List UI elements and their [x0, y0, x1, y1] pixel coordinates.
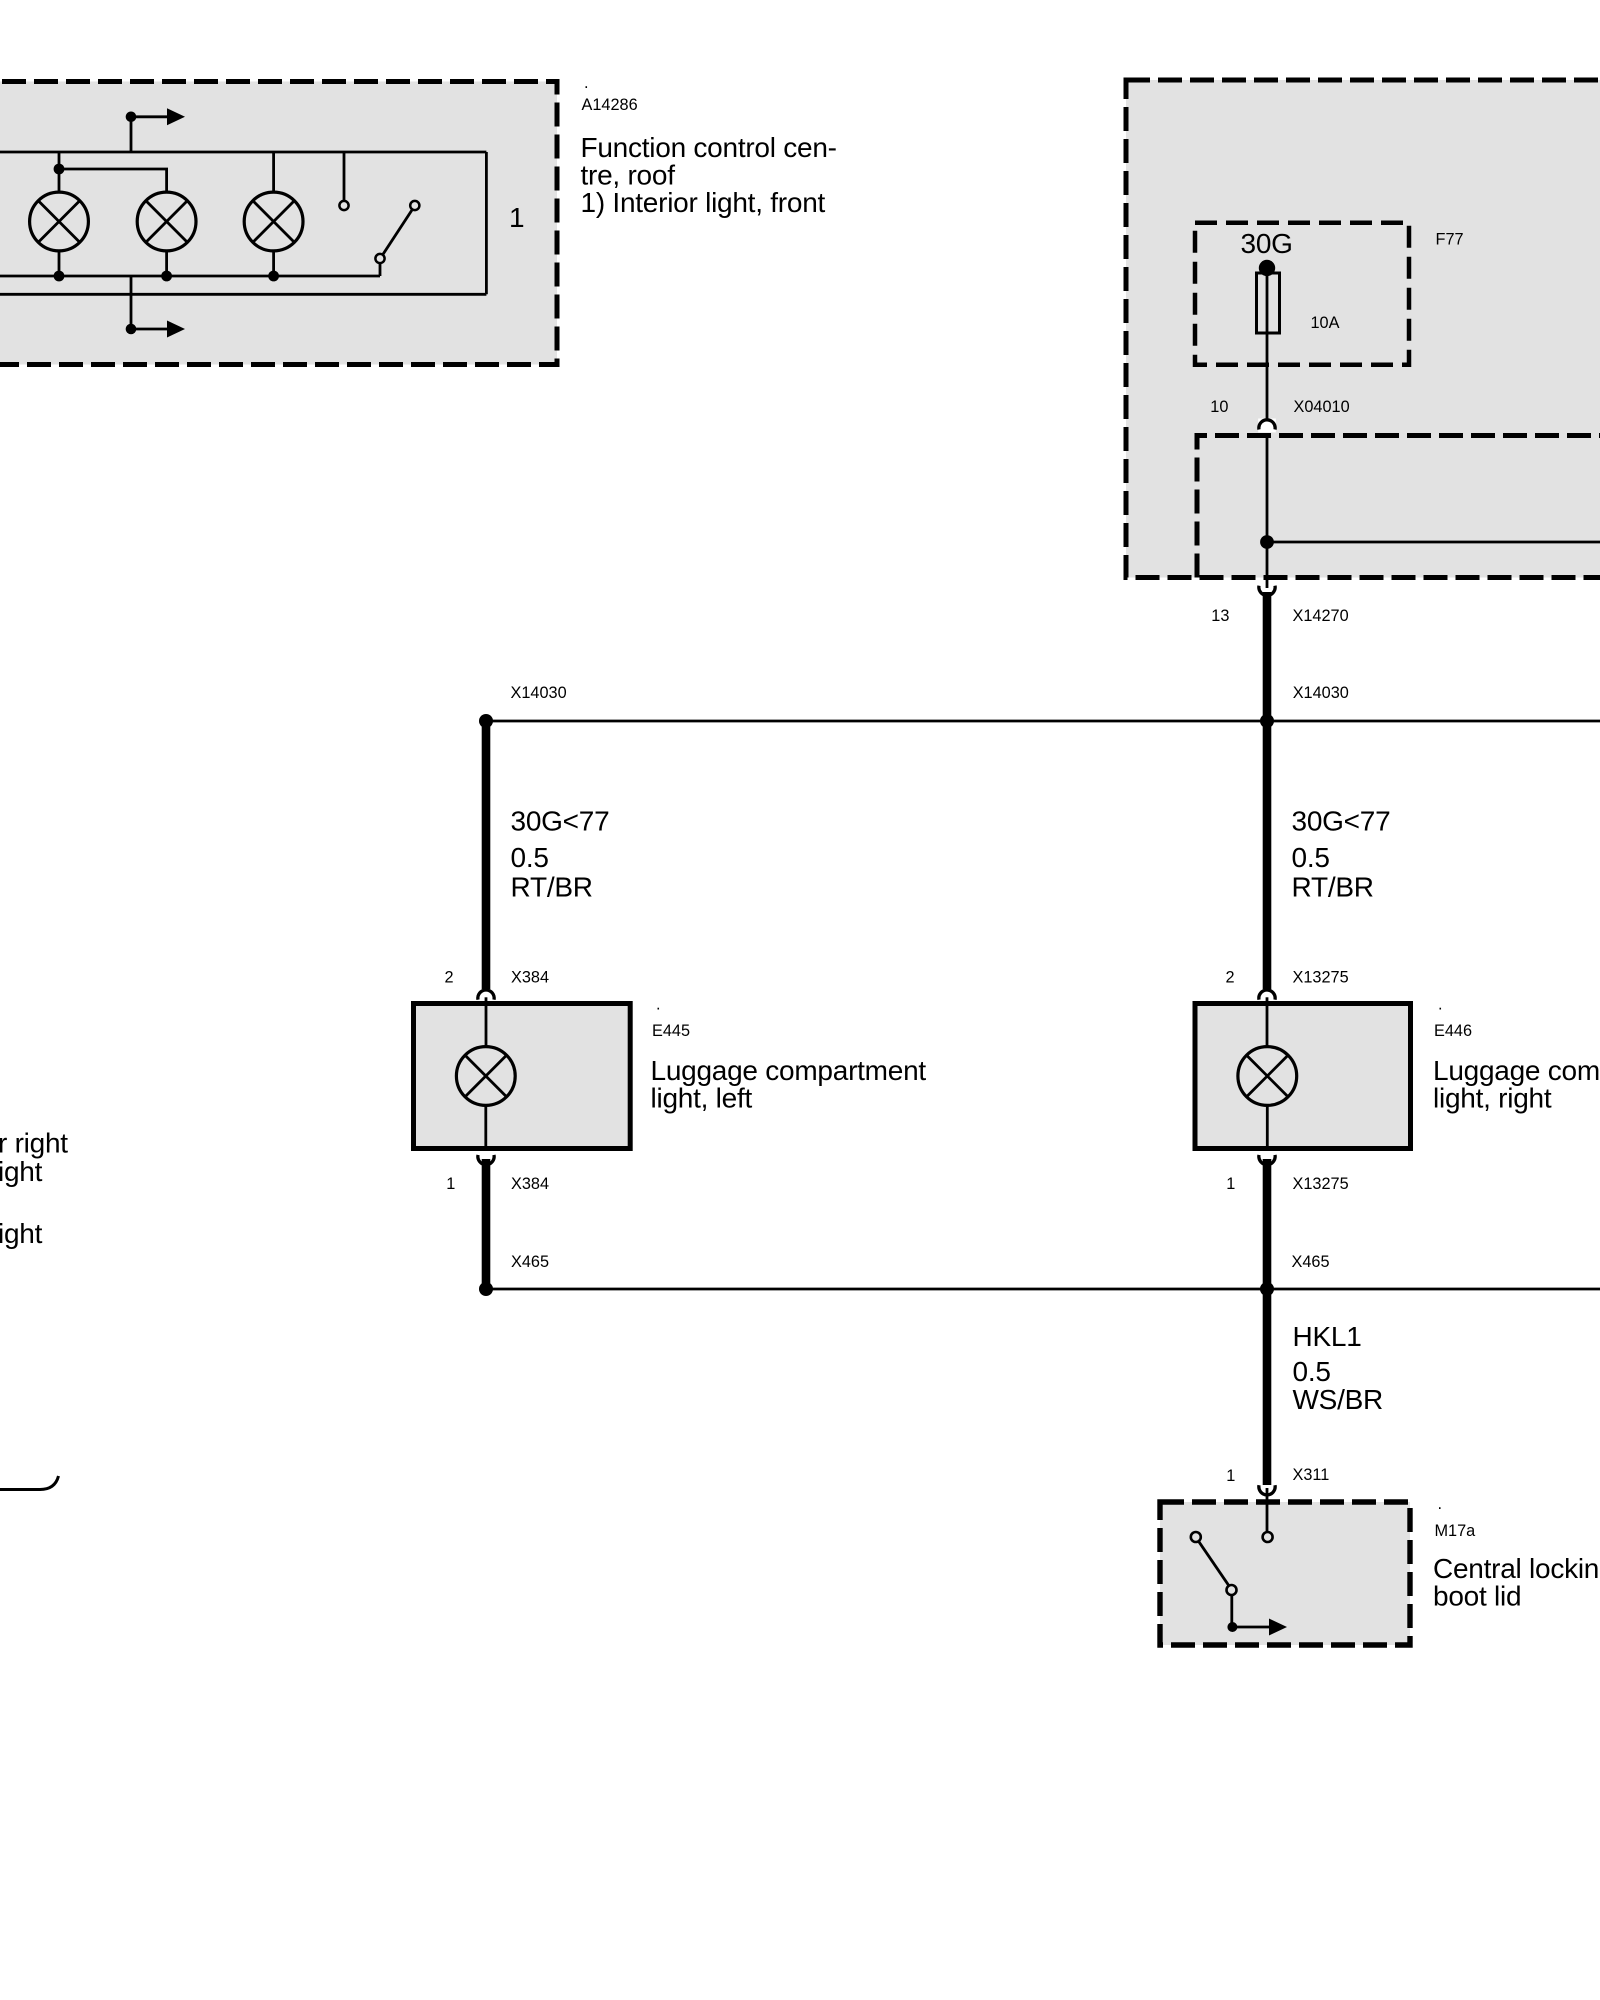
fuse F77 10A [1259, 260, 1275, 276]
output arrow top [131, 117, 170, 152]
lamp E445 [456, 1047, 515, 1106]
svg-text:X384: X384 [511, 969, 549, 987]
svg-text:1: 1 [509, 202, 524, 233]
svg-text:X465: X465 [1292, 1253, 1330, 1271]
node: lamp1 bottom junction [54, 271, 65, 282]
svg-text:Luggage compartment: Luggage compartment [1433, 1055, 1600, 1086]
svg-text:tre, roof: tre, roof [581, 160, 676, 191]
svg-text:A14286: A14286 [582, 96, 638, 114]
fuse box F77 dashed outline [1195, 223, 1409, 365]
output arrow bottom [131, 276, 170, 329]
svg-text:r right: r right [0, 1128, 68, 1159]
svg-text:X384: X384 [511, 1175, 549, 1193]
svg-text:F77: F77 [1436, 231, 1464, 249]
node X465 left [479, 1282, 493, 1296]
switch contact M17a pin [1266, 1502, 1269, 1532]
svg-text:ight: ight [0, 1218, 43, 1249]
svg-text:0.5: 0.5 [1293, 1356, 1331, 1387]
svg-text:1: 1 [446, 1175, 455, 1193]
node: lamp1 top junction [54, 164, 65, 175]
svg-text:.: . [584, 74, 589, 92]
svg-text:Function control cen-: Function control cen- [581, 132, 837, 163]
switch M17a [1191, 1532, 1201, 1542]
svg-text:RT/BR: RT/BR [1292, 872, 1374, 903]
control unit A14286 box (Function control centre, roof) [0, 82, 557, 365]
junction box inner dashed outline [1197, 436, 1600, 578]
svg-text:boot lid: boot lid [1433, 1581, 1521, 1612]
switch (interior light switch) [343, 152, 346, 201]
connector X13275 pin 1 [1259, 1155, 1275, 1165]
wire HKL1 (thick) [1263, 1289, 1272, 1485]
svg-text:0.5: 0.5 [511, 842, 549, 873]
node: distribution junction [1260, 535, 1274, 549]
svg-text:RT/BR: RT/BR [511, 872, 593, 903]
wire: thick supply X14270 to X14030 [1263, 592, 1272, 721]
wire: internal lamp bus [0, 275, 380, 278]
svg-text:30G<77: 30G<77 [511, 806, 610, 837]
svg-text:30G: 30G [1241, 228, 1293, 259]
wire: internal return line bottom [0, 293, 486, 296]
svg-text:2: 2 [1226, 969, 1235, 987]
svg-text:light, right: light, right [1433, 1083, 1552, 1114]
svg-text:.: . [1438, 1495, 1443, 1513]
node X14030 left [479, 714, 493, 728]
svg-text:10: 10 [1210, 398, 1228, 416]
lamp 1 (interior light) [58, 152, 61, 192]
wire (clipped curve, bottom left) [0, 1476, 59, 1490]
svg-text:E446: E446 [1434, 1022, 1472, 1040]
svg-text:X14270: X14270 [1293, 607, 1349, 625]
svg-text:X14030: X14030 [1293, 684, 1349, 702]
lamp 3 (interior light) [272, 152, 275, 192]
svg-text:E445: E445 [652, 1022, 690, 1040]
connector X384 pin 1 [478, 1155, 494, 1165]
svg-text:ight: ight [0, 1156, 43, 1187]
svg-text:HKL1: HKL1 [1293, 1321, 1362, 1352]
connector X14270 [1259, 586, 1275, 596]
power distribution box (top right, dashed) [1126, 80, 1600, 578]
node X14030 right [1260, 714, 1274, 728]
svg-text:WS/BR: WS/BR [1293, 1384, 1384, 1415]
node: switch arrow junction [1227, 1622, 1237, 1632]
svg-text:0.5: 0.5 [1292, 842, 1330, 873]
svg-text:X311: X311 [1293, 1466, 1330, 1484]
lamp E446 [1238, 1047, 1297, 1106]
luggage compartment light right E446 box [1195, 1004, 1411, 1149]
wire 30G<77 right (thick) [1263, 721, 1272, 989]
svg-text:2: 2 [445, 969, 454, 987]
wire: fuse output down to X14270 [1266, 268, 1269, 425]
wire: X14030 distribution line [486, 720, 1600, 723]
svg-text:M17a: M17a [1435, 1522, 1477, 1540]
svg-text:X13275: X13275 [1293, 969, 1349, 987]
svg-text:.: . [656, 996, 661, 1014]
svg-text:1) Interior light, front: 1) Interior light, front [581, 187, 826, 218]
svg-text:13: 13 [1211, 607, 1229, 625]
wire: internal supply line top [0, 151, 486, 154]
svg-text:10A: 10A [1311, 314, 1340, 332]
node: lamp2 bottom junction [161, 271, 172, 282]
wire: X465 link line [486, 1288, 1600, 1291]
luggage compartment light left E445 box [414, 1004, 631, 1149]
svg-text:1: 1 [1226, 1467, 1235, 1485]
svg-text:30G<77: 30G<77 [1292, 806, 1391, 837]
lamp 2 (interior light) [59, 169, 167, 192]
svg-text:light, left: light, left [651, 1083, 753, 1114]
svg-text:.: . [1438, 996, 1443, 1014]
svg-text:X14030: X14030 [511, 684, 567, 702]
svg-text:X465: X465 [511, 1253, 549, 1271]
svg-text:X13275: X13275 [1293, 1175, 1349, 1193]
node: lamp3 bottom junction [268, 271, 279, 282]
wire: internal box right edge [485, 152, 488, 294]
wire 30G<77 left (thick) [482, 721, 491, 989]
svg-text:1: 1 [1226, 1175, 1235, 1193]
svg-text:X04010: X04010 [1294, 398, 1350, 416]
central locking drive M17a box [1160, 1502, 1410, 1645]
wire: E446 to X465 (thick) [1263, 1159, 1272, 1289]
svg-text:Luggage compartment: Luggage compartment [651, 1055, 927, 1086]
node X465 right [1260, 1282, 1274, 1296]
connector X04010 [1258, 419, 1276, 433]
wire: junction to right edge [1267, 541, 1600, 544]
wire: E445 to X465 (thick) [482, 1159, 491, 1289]
svg-text:Central locking,: Central locking, [1433, 1553, 1600, 1584]
